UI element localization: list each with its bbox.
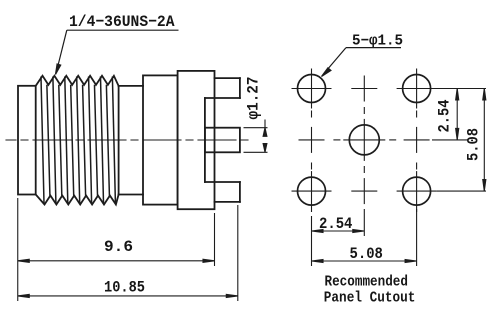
nut section [143,75,178,204]
centerline [6,139,250,141]
recessed face line [204,98,206,182]
svg-text:2.54: 2.54 [436,99,454,132]
thread runout line [118,86,120,195]
svg-text:5−φ1.5: 5−φ1.5 [352,33,403,50]
mounting flange [178,71,215,209]
svg-text:2.54: 2.54 [319,215,353,233]
bottom pin [205,182,240,202]
connecting dashes middle row [333,139,340,141]
dim 2.54 vertical [432,89,486,140]
label 1/4-36UNS-2A [56,13,179,75]
connecting dashes left column [311,111,313,118]
hole top-right [403,75,431,103]
grid cross bottom-middle [351,190,377,192]
dim 5.08 horizontal [312,209,417,266]
grid cross right-middle [404,139,430,141]
hole bottom-left [298,177,326,205]
grid cross left-middle [299,139,325,141]
top pin [205,78,240,98]
connecting dashes right column [416,111,418,118]
hole center [349,125,379,155]
dim 9.6 [18,198,215,301]
svg-text:9.6: 9.6 [104,238,133,256]
threads [36,76,119,205]
svg-text:10.85: 10.85 [104,279,145,297]
svg-text:5.08: 5.08 [465,128,483,161]
cylinder section [119,85,143,87]
dim 10.85 [18,205,238,301]
hole centerline crosses [292,69,437,213]
dim phi1.27 [244,120,268,153]
dim 5.08 vertical [437,89,486,192]
grid cross top-middle [351,88,377,90]
panel cutout holes [298,75,431,206]
svg-text:φ1.27: φ1.27 [245,77,263,120]
left flange [18,86,36,195]
center pin [205,128,240,153]
center crosshair [343,139,385,141]
svg-text:5.08: 5.08 [350,245,383,263]
bottom-left crosshair [292,190,332,192]
bottom-right crosshair [397,190,437,192]
svg-text:Panel Cutout: Panel Cutout [324,290,416,307]
hole bottom-right [403,177,431,205]
top-left crosshair [292,88,332,90]
label 5-phi1.5 [322,33,404,77]
top-right crosshair [397,88,437,90]
hole top-left [298,75,326,103]
connecting dashes middle column [363,107,365,114]
svg-text:1/4−36UNS−2A: 1/4−36UNS−2A [69,13,175,31]
dim 2.54 horizontal [312,209,365,266]
svg-text:Recommended: Recommended [325,274,409,291]
